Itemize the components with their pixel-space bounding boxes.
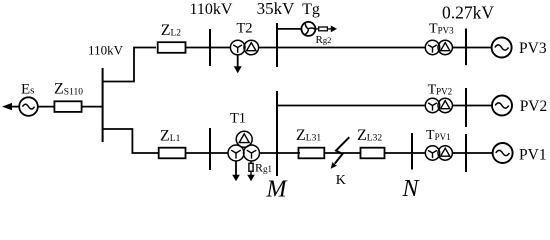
- wire ZL1 to T1: [186, 152, 229, 154]
- bus 35kV: [276, 23, 278, 67]
- bus N: [411, 133, 413, 170]
- svg-text:N: N: [401, 176, 420, 198]
- bus 0.27kV (PV3): [465, 29, 467, 66]
- source PV3: [492, 38, 512, 58]
- svg-text:Tg: Tg: [302, 1, 320, 18]
- resistor Rg1: [247, 161, 255, 181]
- svg-text:M: M: [266, 177, 289, 199]
- impedance ZS110: [54, 101, 81, 112]
- wire TPV2 to PV2: [452, 105, 492, 107]
- svg-text:TPV3: TPV3: [429, 22, 454, 37]
- svg-text:35kV: 35kV: [257, 0, 296, 18]
- bus 0.4kV (PV1): [465, 134, 467, 172]
- wire M bus to ZL31: [277, 152, 300, 154]
- svg-text:110kV: 110kV: [88, 43, 124, 58]
- wire branch bus to ZL2: [103, 48, 156, 82]
- ground arrow of T2: [234, 55, 242, 73]
- impedance ZL1: [159, 148, 186, 159]
- transformer TPV1: [425, 146, 452, 160]
- wire ZS110 to 110kV bus: [81, 106, 102, 108]
- wire Es to ZS110: [38, 106, 54, 108]
- wire T2 to 35kV bus: [259, 47, 277, 49]
- wire T1 to M bus: [260, 152, 278, 154]
- wire M bus to TPV2: [277, 105, 425, 107]
- source PV2: [492, 96, 512, 116]
- bus 110kV bar at T1: [209, 128, 211, 170]
- svg-text:PV1: PV1: [519, 147, 547, 164]
- fault K symbol: [331, 137, 350, 169]
- svg-text:Es: Es: [21, 82, 34, 98]
- svg-text:ZL31: ZL31: [296, 127, 321, 144]
- svg-text:0.27kV: 0.27kV: [442, 3, 494, 23]
- svg-text:T2: T2: [236, 21, 252, 37]
- impedance ZL2: [158, 42, 186, 53]
- transformer TPV3: [425, 40, 452, 54]
- svg-text:PV2: PV2: [520, 98, 548, 115]
- wire TPV1 to PV1: [452, 152, 492, 154]
- impedance ZL31: [299, 148, 325, 159]
- svg-text:110kV: 110kV: [190, 1, 233, 18]
- svg-text:ZL1: ZL1: [160, 128, 181, 145]
- svg-text:ZL2: ZL2: [161, 22, 182, 39]
- wire 35kV bus to TPV3: [277, 47, 425, 49]
- transformer T2: [230, 40, 258, 55]
- svg-text:T1: T1: [230, 111, 246, 127]
- svg-text:TPV1: TPV1: [426, 128, 451, 143]
- wire ZL31 to ZL32: [324, 152, 360, 154]
- generator Tg: [301, 22, 315, 36]
- svg-text:PV3: PV3: [519, 40, 547, 57]
- resistor Rg2: [315, 26, 337, 33]
- wire ZL32 to TPV1: [385, 152, 426, 154]
- wire 35kV bus to Tg: [277, 28, 301, 30]
- svg-text:TPV2: TPV2: [428, 83, 453, 98]
- svg-text:Rg2: Rg2: [316, 34, 332, 46]
- wire branch bus to ZL1: [103, 129, 159, 153]
- svg-text:Rg1: Rg1: [255, 161, 272, 175]
- wire TPV3 to PV3: [452, 47, 491, 49]
- bus 110kV (left system bus): [102, 68, 104, 142]
- svg-text:K: K: [336, 173, 346, 188]
- ground arrow of T1 neutral: [232, 161, 240, 181]
- source PV1: [493, 143, 513, 163]
- impedance ZL32: [361, 148, 385, 159]
- svg-text:ZS110: ZS110: [54, 81, 83, 98]
- bus M: [276, 91, 278, 176]
- bus 0.4kV (PV2): [465, 88, 467, 127]
- bus 110kV bar at T2: [209, 29, 211, 66]
- wire ZL2 to T2: [186, 47, 231, 49]
- transformer TPV2: [425, 98, 452, 112]
- source Es: [2, 97, 38, 116]
- svg-text:ZL32: ZL32: [357, 127, 382, 144]
- transformer T1: [228, 131, 260, 161]
